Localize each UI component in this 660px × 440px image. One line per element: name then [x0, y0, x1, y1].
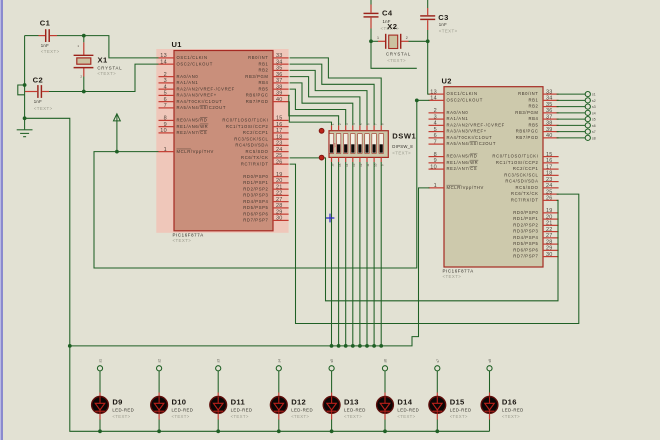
svg-text:RC1/T1OSI/CCP2: RC1/T1OSI/CCP2 — [496, 160, 539, 165]
svg-text:RB7/PGD: RB7/PGD — [246, 99, 269, 104]
svg-text:LED-RED: LED-RED — [397, 407, 419, 412]
svg-text:RC7/RX/DT: RC7/RX/DT — [511, 197, 539, 202]
svg-text:30: 30 — [276, 216, 283, 222]
svg-text:13: 13 — [430, 89, 437, 95]
svg-text:s6: s6 — [592, 124, 596, 128]
svg-text:<TEXT>: <TEXT> — [172, 414, 190, 419]
wire terminal to D11 — [217, 371, 219, 397]
terminal s2 above D10 — [157, 359, 162, 371]
svg-text:7: 7 — [434, 139, 437, 145]
svg-text:RD1/PSP1: RD1/PSP1 — [243, 180, 268, 185]
junction dot rail ground — [23, 116, 27, 120]
svg-text:15: 15 — [546, 152, 553, 158]
LED D16 — [481, 397, 524, 420]
svg-text:26: 26 — [546, 196, 553, 202]
capacitor C3 — [420, 8, 457, 33]
wire ground net to LED bus — [25, 118, 70, 346]
svg-text:40: 40 — [276, 97, 283, 103]
power terminal arrow — [114, 114, 121, 152]
terminal s6 above D14 — [382, 359, 387, 371]
svg-text:RC0/T1OSO/T1CKI: RC0/T1OSO/T1CKI — [222, 118, 268, 123]
svg-text:DIPSW_8: DIPSW_8 — [392, 144, 413, 149]
svg-text:24: 24 — [276, 147, 283, 153]
wire U1 RB1 to DSW pin 7 — [290, 64, 375, 125]
svg-text:RB1: RB1 — [258, 61, 268, 66]
wire D9 to bottom bus — [99, 414, 101, 432]
wire terminal to D14 — [384, 371, 386, 397]
wire X2 right to U2 OSC1 pin 13 — [428, 41, 430, 94]
svg-text:24: 24 — [546, 183, 553, 189]
svg-text:27: 27 — [546, 233, 553, 239]
svg-text:RC1/T1OSI/CCP2: RC1/T1OSI/CCP2 — [226, 124, 269, 129]
svg-text:18: 18 — [276, 134, 283, 140]
svg-text:RD5/PSP5: RD5/PSP5 — [513, 241, 538, 246]
svg-text:RB5: RB5 — [258, 86, 268, 91]
svg-text:RB6/PGC: RB6/PGC — [246, 93, 269, 98]
svg-text:10: 10 — [160, 128, 167, 134]
svg-text:LED-RED: LED-RED — [172, 407, 194, 412]
junction dot U2 osc2 link — [415, 98, 419, 102]
wire D15 to bottom bus — [436, 414, 438, 432]
svg-text:RA5/AN4/SS/C2OUT: RA5/AN4/SS/C2OUT — [447, 141, 497, 146]
svg-text:18: 18 — [546, 171, 553, 177]
svg-text:39: 39 — [276, 91, 283, 97]
wire C1 right to U1 OSC1 pin 13 — [57, 36, 159, 58]
wire D12 to bottom bus — [278, 414, 280, 432]
svg-text:CRYSTAL: CRYSTAL — [97, 66, 122, 71]
svg-text:RC6/TX/CK: RC6/TX/CK — [241, 155, 268, 160]
svg-text:RB0/INT: RB0/INT — [518, 91, 538, 96]
svg-text:37: 37 — [276, 78, 283, 84]
svg-text:<TEXT>: <TEXT> — [41, 49, 60, 54]
svg-text:3: 3 — [164, 78, 167, 84]
wire C3 top — [427, 0, 429, 8]
terminal s5 above D13 — [329, 359, 334, 371]
svg-text:RE0/AN5/RD: RE0/AN5/RD — [177, 118, 208, 123]
junction dot D14 bus — [383, 429, 387, 433]
wire terminal to D16 — [489, 371, 491, 397]
svg-text:D14: D14 — [397, 398, 412, 407]
capacitor C2 — [25, 76, 53, 111]
svg-text:s8: s8 — [488, 359, 492, 363]
svg-text:RA4/T0CKI/C1OUT: RA4/T0CKI/C1OUT — [447, 135, 493, 140]
svg-text:MCLR/Vpp/THV: MCLR/Vpp/THV — [177, 149, 214, 154]
crystal X1 — [74, 42, 123, 78]
label U2 — [442, 76, 452, 85]
svg-text:17: 17 — [546, 164, 553, 170]
svg-text:D9: D9 — [112, 398, 122, 407]
svg-text:RD4/PSP4: RD4/PSP4 — [513, 235, 538, 240]
svg-text:D15: D15 — [450, 398, 465, 407]
IC U2 pin stubs — [429, 94, 559, 257]
wire C4 bottom — [370, 29, 372, 42]
wire D14 to bottom bus — [384, 414, 386, 432]
svg-text:D16: D16 — [502, 398, 517, 407]
DSW1 pin stubs — [332, 125, 382, 162]
svg-text:RA1/AN1: RA1/AN1 — [177, 80, 199, 85]
svg-text:RE2/AN7/CS: RE2/AN7/CS — [177, 130, 208, 135]
junction dots DSW columns on bus — [330, 344, 384, 348]
IC U1 pin labels — [160, 53, 282, 222]
svg-text:<TEXT>: <TEXT> — [392, 151, 411, 156]
svg-text:7: 7 — [164, 103, 167, 109]
junction dot D13 bus — [330, 429, 334, 433]
LED D13 — [323, 397, 366, 420]
svg-text:RB6/PGC: RB6/PGC — [516, 129, 539, 134]
svg-text:35: 35 — [546, 102, 553, 108]
terminals s1-s8 at U2 port B — [557, 92, 596, 141]
wire D10 to bottom bus — [158, 414, 160, 432]
svg-text:s6: s6 — [384, 359, 388, 363]
svg-text:LED-RED: LED-RED — [291, 407, 313, 412]
svg-text:RD5/PSP5: RD5/PSP5 — [243, 205, 268, 210]
svg-text:<TEXT>: <TEXT> — [387, 58, 406, 63]
wire U1 RB6 to DSW pin 2 — [289, 95, 339, 125]
svg-text:C1: C1 — [40, 19, 51, 28]
wire terminal to D13 — [331, 371, 333, 397]
svg-text:<TEXT>: <TEXT> — [344, 414, 362, 419]
svg-text:RD3/PSP3: RD3/PSP3 — [513, 229, 538, 234]
svg-text:s5: s5 — [330, 359, 334, 363]
svg-text:RA0/AN0: RA0/AN0 — [177, 74, 199, 79]
svg-text:RC7/RX/DT: RC7/RX/DT — [241, 161, 269, 166]
wire U1 RB0 to DSW pin 8 — [290, 58, 382, 126]
svg-text:RD2/PSP2: RD2/PSP2 — [243, 186, 268, 191]
svg-text:RC2/CCP1: RC2/CCP1 — [243, 130, 269, 135]
svg-text:1: 1 — [164, 147, 167, 153]
svg-text:23: 23 — [276, 141, 283, 147]
svg-text:30: 30 — [546, 252, 553, 258]
svg-text:RC3/SCK/SCL: RC3/SCK/SCL — [504, 172, 538, 177]
svg-text:29: 29 — [276, 209, 283, 215]
svg-text:33: 33 — [546, 89, 553, 95]
svg-text:RD2/PSP2: RD2/PSP2 — [513, 222, 538, 227]
svg-text:<TEXT>: <TEXT> — [97, 71, 116, 76]
svg-text:4: 4 — [164, 84, 167, 90]
svg-text:13: 13 — [160, 53, 167, 59]
svg-text:CRYSTAL: CRYSTAL — [386, 51, 411, 56]
svg-text:RB3/PGM: RB3/PGM — [245, 74, 268, 79]
IC U2 pin labels — [430, 89, 552, 258]
svg-text:28: 28 — [276, 203, 283, 209]
svg-text:s3: s3 — [217, 359, 221, 363]
svg-text:4: 4 — [434, 121, 437, 127]
svg-text:1nF: 1nF — [439, 22, 447, 27]
svg-text:16: 16 — [276, 122, 283, 128]
svg-text:9: 9 — [434, 158, 437, 164]
wire C4 top — [370, 0, 372, 5]
svg-text:RB3/PGM: RB3/PGM — [515, 110, 538, 115]
wire rail jog — [18, 85, 25, 95]
svg-text:OSC2/CLKOUT: OSC2/CLKOUT — [447, 97, 483, 102]
svg-text:35: 35 — [276, 66, 283, 72]
wire U1 RB4 to DSW pin 4 — [290, 83, 353, 126]
svg-text:2: 2 — [164, 72, 167, 78]
svg-text:RE0/AN5/RD: RE0/AN5/RD — [447, 154, 478, 159]
sheet left margin strip — [0, 0, 3, 440]
svg-text:X2: X2 — [387, 22, 397, 31]
junction dot D9 bus — [98, 429, 102, 433]
svg-text:<TEXT>: <TEXT> — [34, 106, 53, 111]
terminal s3 above D11 — [216, 359, 221, 371]
wire C1 left to rail — [25, 35, 39, 37]
svg-text:RC5/SDO: RC5/SDO — [516, 185, 539, 190]
svg-text:RC2/CCP1: RC2/CCP1 — [513, 166, 539, 171]
svg-text:RD3/PSP3: RD3/PSP3 — [243, 193, 268, 198]
svg-text:25: 25 — [546, 189, 553, 195]
svg-text:8: 8 — [434, 152, 437, 158]
svg-text:37: 37 — [546, 114, 553, 120]
junction dot D10 bus — [157, 429, 161, 433]
svg-text:X1: X1 — [98, 56, 108, 65]
svg-text:2: 2 — [406, 36, 408, 40]
svg-text:<TEXT>: <TEXT> — [397, 414, 415, 419]
svg-text:10: 10 — [430, 164, 437, 170]
schematic origin marker — [326, 214, 335, 223]
wire U1 RC6/TX to U2 RC7/RX — [290, 158, 558, 301]
svg-text:RE2/AN7/CS: RE2/AN7/CS — [447, 166, 478, 171]
svg-text:28: 28 — [546, 239, 553, 245]
LED D14 — [377, 397, 420, 420]
svg-text:OSC1/CLKIN: OSC1/CLKIN — [177, 55, 208, 60]
wire U1 MCLR loop to U2 — [94, 100, 417, 268]
svg-text:C4: C4 — [382, 9, 393, 18]
svg-text:6: 6 — [164, 97, 167, 103]
svg-text:15: 15 — [276, 116, 283, 122]
wire terminal to D12 — [278, 371, 280, 397]
IC U2 PIC16F877A body — [444, 87, 543, 267]
IC U1 pin stubs — [159, 58, 289, 221]
svg-text:1: 1 — [377, 36, 379, 40]
svg-text:D13: D13 — [344, 398, 359, 407]
LED D11 — [210, 397, 253, 420]
svg-text:<TEXT>: <TEXT> — [173, 238, 192, 243]
svg-text:s1: s1 — [99, 359, 103, 363]
svg-text:1nF: 1nF — [41, 43, 49, 48]
svg-text:RB2: RB2 — [528, 104, 538, 109]
terminal s4 above D12 — [276, 359, 281, 371]
ground symbol — [17, 118, 33, 136]
LED D12 — [270, 397, 313, 420]
terminal s8 above D16 — [487, 359, 492, 371]
junction dot X2 right — [426, 39, 430, 43]
wire D16 to bottom bus — [489, 414, 491, 432]
svg-text:9: 9 — [164, 122, 167, 128]
svg-text:20: 20 — [276, 178, 283, 184]
svg-text:RA0/AN0: RA0/AN0 — [447, 110, 469, 115]
svg-text:34: 34 — [276, 59, 283, 65]
DIP switch DSW1 body — [329, 131, 388, 158]
svg-text:LED-RED: LED-RED — [450, 407, 472, 412]
svg-text:s5: s5 — [592, 118, 596, 122]
capacitor C1 — [39, 19, 60, 54]
wire U1 RC7/RX to U2 RC6/TX — [290, 164, 579, 323]
wire C2 right to U1 OSC2 pin 14 — [49, 64, 159, 91]
svg-text:D11: D11 — [231, 398, 246, 407]
svg-text:<TEXT>: <TEXT> — [439, 28, 458, 33]
wire U1 RB5 to DSW pin 3 — [290, 89, 346, 125]
svg-text:RD1/PSP1: RD1/PSP1 — [513, 216, 538, 221]
svg-text:OSC2/CLKOUT: OSC2/CLKOUT — [177, 61, 213, 66]
wire left rail — [24, 36, 26, 119]
svg-text:22: 22 — [546, 227, 553, 233]
wires DSW1 bottom pins to bus — [332, 162, 382, 346]
svg-text:PIC16F877A: PIC16F877A — [173, 232, 204, 237]
svg-text:RB4: RB4 — [528, 116, 538, 121]
svg-text:5: 5 — [434, 127, 437, 133]
svg-text:RC4/SDI/SDA: RC4/SDI/SDA — [235, 143, 268, 148]
wire D13 to bottom bus — [331, 414, 333, 432]
label U1 part name — [173, 232, 204, 243]
svg-text:19: 19 — [276, 172, 283, 178]
LED D9 — [92, 397, 135, 420]
svg-text:LED-RED: LED-RED — [502, 407, 524, 412]
label U1 — [172, 40, 182, 49]
svg-text:RD7/PSP7: RD7/PSP7 — [513, 254, 538, 259]
svg-text:<TEXT>: <TEXT> — [502, 414, 520, 419]
wire X2 left to U2 osc2 route — [371, 41, 417, 68]
svg-text:RD6/PSP6: RD6/PSP6 — [513, 247, 538, 252]
svg-text:RB2: RB2 — [258, 68, 268, 73]
DSW1 red marker top — [319, 128, 324, 133]
svg-text:OSC1/CLKIN: OSC1/CLKIN — [447, 91, 478, 96]
svg-text:LED-RED: LED-RED — [231, 407, 253, 412]
svg-text:RB1: RB1 — [528, 97, 538, 102]
svg-text:34: 34 — [546, 96, 553, 102]
LED D10 — [151, 397, 194, 420]
svg-text:D10: D10 — [172, 398, 187, 407]
svg-text:s7: s7 — [592, 130, 596, 134]
svg-text:RA5/AN4/SS/C2OUT: RA5/AN4/SS/C2OUT — [177, 105, 227, 110]
svg-text:<TEXT>: <TEXT> — [231, 414, 249, 419]
LED D15 — [429, 397, 472, 420]
wire terminal to D15 — [436, 371, 438, 397]
wire X2 right pin — [409, 40, 428, 42]
svg-text:U2: U2 — [442, 76, 452, 85]
svg-text:D12: D12 — [291, 398, 306, 407]
DSW1 pin numbers — [331, 123, 385, 167]
svg-text:17: 17 — [276, 128, 283, 134]
wire terminal to D9 — [99, 371, 101, 397]
svg-text:LED-RED: LED-RED — [112, 407, 134, 412]
svg-text:38: 38 — [276, 84, 283, 90]
wire link into U2 OSC2 pin 14 — [417, 99, 430, 101]
svg-text:8: 8 — [164, 116, 167, 122]
svg-text:s3: s3 — [592, 105, 596, 109]
IC U1 PIC16F877A body — [156, 49, 288, 233]
junction dot MCLR arrow — [115, 150, 119, 154]
svg-text:40: 40 — [546, 133, 553, 139]
svg-text:RB4: RB4 — [258, 80, 268, 85]
svg-text:21: 21 — [546, 221, 553, 227]
wire terminal to D10 — [158, 371, 160, 397]
junction dot X2 left — [369, 39, 373, 43]
wire U1 RB3 to DSW pin 5 — [290, 77, 360, 126]
DSW1 red marker bottom — [319, 155, 324, 160]
svg-text:RD7/PSP7: RD7/PSP7 — [243, 218, 268, 223]
svg-text:20: 20 — [546, 214, 553, 220]
svg-text:RD6/PSP6: RD6/PSP6 — [243, 211, 268, 216]
wire LED bottom bus — [70, 346, 490, 431]
svg-text:14: 14 — [160, 59, 167, 65]
svg-text:RC0/T1OSO/T1CKI: RC0/T1OSO/T1CKI — [492, 154, 538, 159]
svg-text:s1: s1 — [592, 93, 596, 97]
svg-text:36: 36 — [276, 72, 283, 78]
wire U1 RB2 to DSW pin 6 — [290, 70, 367, 125]
terminal s7 above D15 — [435, 359, 440, 371]
junction dot D15 bus — [435, 429, 439, 433]
svg-text:19: 19 — [546, 208, 553, 214]
svg-text:RD0/PSP0: RD0/PSP0 — [513, 210, 538, 215]
svg-text:21: 21 — [276, 184, 283, 190]
svg-text:<TEXT>: <TEXT> — [291, 414, 309, 419]
svg-text:23: 23 — [546, 177, 553, 183]
label DSW1 — [392, 131, 416, 155]
svg-text:s8: s8 — [592, 136, 596, 140]
svg-text:RC3/SCK/SCL: RC3/SCK/SCL — [234, 136, 268, 141]
svg-text:s4: s4 — [277, 359, 281, 363]
svg-text:RC4/SDI/SDA: RC4/SDI/SDA — [505, 179, 538, 184]
svg-text:25: 25 — [276, 153, 283, 159]
svg-text:6: 6 — [434, 133, 437, 139]
svg-text:RC5/SDO: RC5/SDO — [246, 149, 269, 154]
svg-text:RD4/PSP4: RD4/PSP4 — [243, 199, 268, 204]
svg-text:LED-RED: LED-RED — [344, 407, 366, 412]
svg-text:<TEXT>: <TEXT> — [443, 274, 462, 279]
svg-text:RE1/AN6/WR: RE1/AN6/WR — [447, 160, 479, 165]
svg-text:22: 22 — [276, 191, 283, 197]
svg-text:RA2/AN2/VREF-/CVREF: RA2/AN2/VREF-/CVREF — [447, 122, 505, 127]
svg-text:C2: C2 — [33, 76, 44, 85]
svg-text:RA1/AN1: RA1/AN1 — [447, 116, 469, 121]
wire LED top bus to U2 MCLR — [70, 188, 430, 346]
svg-text:<TEXT>: <TEXT> — [450, 414, 468, 419]
svg-text:RB5: RB5 — [528, 122, 538, 127]
svg-text:s4: s4 — [592, 111, 596, 115]
svg-text:26: 26 — [276, 159, 283, 165]
junction dot X1 bottom — [82, 90, 86, 94]
svg-text:29: 29 — [546, 246, 553, 252]
svg-text:C3: C3 — [438, 13, 449, 22]
svg-text:U1: U1 — [172, 40, 182, 49]
svg-text:2: 2 — [434, 108, 437, 114]
svg-text:DSW1: DSW1 — [392, 131, 416, 140]
svg-text:5: 5 — [164, 91, 167, 97]
svg-text:1: 1 — [434, 183, 437, 189]
junction dot D11 bus — [216, 429, 220, 433]
wire C3 bottom — [427, 30, 429, 41]
svg-text:ON: ON — [333, 143, 337, 148]
svg-text:3: 3 — [434, 114, 437, 120]
svg-text:s2: s2 — [158, 359, 162, 363]
svg-text:1nF: 1nF — [34, 99, 42, 104]
svg-text:33: 33 — [276, 53, 283, 59]
svg-text:s7: s7 — [436, 359, 440, 363]
junction dot C1 X1 top — [82, 34, 86, 38]
crystal X2 — [377, 22, 411, 63]
svg-text:RB7/PGD: RB7/PGD — [516, 135, 539, 140]
svg-text:MCLR/Vpp/THV: MCLR/Vpp/THV — [447, 185, 484, 190]
svg-text:14: 14 — [430, 96, 437, 102]
svg-text:36: 36 — [546, 108, 553, 114]
svg-text:<TEXT>: <TEXT> — [112, 414, 130, 419]
svg-text:27: 27 — [276, 197, 283, 203]
svg-text:RE1/AN6/WR: RE1/AN6/WR — [177, 124, 209, 129]
svg-text:s2: s2 — [592, 99, 596, 103]
svg-text:RD0/PSP0: RD0/PSP0 — [243, 174, 268, 179]
svg-text:RA3/AN3/VREF+: RA3/AN3/VREF+ — [447, 129, 487, 134]
svg-text:PIC16F877A: PIC16F877A — [443, 269, 474, 274]
